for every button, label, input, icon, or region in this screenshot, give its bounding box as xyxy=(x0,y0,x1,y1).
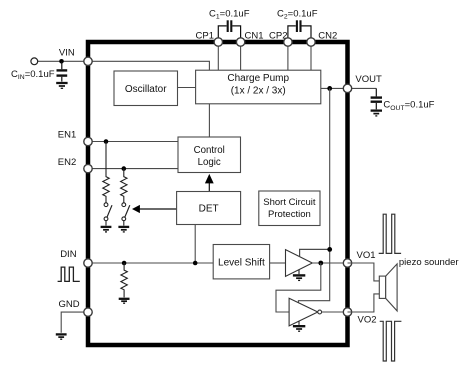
wire oscillator to charge pump xyxy=(178,87,196,89)
wire VO2 to piezo xyxy=(348,294,380,312)
svg-text:VOUT: VOUT xyxy=(355,74,382,85)
capacitor C1 xyxy=(218,20,240,37)
svg-text:piezo sounder: piezo sounder xyxy=(399,257,459,268)
ground COUT xyxy=(371,111,382,116)
svg-text:VO1: VO1 xyxy=(357,250,376,261)
svg-text:Charge Pump: Charge Pump xyxy=(227,73,289,84)
svg-text:Protection: Protection xyxy=(268,209,311,220)
svg-text:Short Circuit: Short Circuit xyxy=(263,197,316,208)
svg-text:(1x / 2x / 3x): (1x / 2x / 3x) xyxy=(231,85,286,96)
node EN2 pulldown junction xyxy=(122,166,127,171)
ground S2 xyxy=(118,227,129,232)
block Short Circuit Protection xyxy=(259,191,320,226)
node EN1 pulldown junction xyxy=(104,139,109,144)
wire CP1 stub xyxy=(217,46,219,70)
wire EN2 xyxy=(88,168,178,170)
node VO1 branch junction xyxy=(318,261,323,266)
pin CP1 xyxy=(214,38,222,46)
block Control Logic xyxy=(178,137,241,173)
node VOUT junction xyxy=(327,86,332,91)
svg-text:CIN=0.1uF: CIN=0.1uF xyxy=(11,69,55,81)
wire VO1 to piezo xyxy=(348,263,380,281)
block Oscillator xyxy=(114,71,178,106)
node DET junction xyxy=(193,261,198,266)
svg-text:CN1: CN1 xyxy=(244,31,263,42)
wire inverter output to VO2 xyxy=(322,311,348,313)
switch S1 xyxy=(104,203,112,226)
wire VIN input xyxy=(38,61,210,70)
svg-text:C2=0.1uF: C2=0.1uF xyxy=(277,9,318,21)
wire buffer output to VO1 xyxy=(312,262,347,264)
svg-text:CP1: CP1 xyxy=(196,31,214,42)
svg-text:EN1: EN1 xyxy=(58,129,76,140)
ground GND pin xyxy=(56,334,67,339)
wire DIN xyxy=(88,262,213,264)
wire CN2 stub xyxy=(310,46,312,70)
resistor DIN pulldown xyxy=(121,263,127,297)
wire supply rail to amplifiers xyxy=(298,88,329,303)
node buffer supply junction xyxy=(327,247,332,252)
ground buffer U1 xyxy=(293,270,305,281)
svg-text:DET: DET xyxy=(199,203,219,214)
svg-text:EN2: EN2 xyxy=(58,157,76,168)
wire EN1 xyxy=(88,141,178,143)
pin DIN xyxy=(84,259,92,267)
capacitor C2 xyxy=(288,20,311,37)
wire level shift to buffer xyxy=(270,262,286,264)
pin EN2 xyxy=(84,164,92,172)
wire VO1 branch to inverter input xyxy=(276,263,321,312)
op-amp buffer U1 xyxy=(286,250,313,277)
terminal VIN input xyxy=(31,58,38,65)
inverter U2 xyxy=(289,298,318,326)
switch S2 xyxy=(122,203,130,226)
svg-text:CN2: CN2 xyxy=(318,31,337,42)
node VIN junction xyxy=(59,59,64,64)
pin VOUT xyxy=(343,84,351,92)
resistor EN2 pulldown xyxy=(121,169,127,203)
piezo sounder speaker cone xyxy=(386,264,397,311)
pin CP2 xyxy=(284,38,292,46)
pin VIN xyxy=(84,57,92,65)
wire GND xyxy=(61,312,88,333)
ground CIN xyxy=(56,83,67,88)
wire buffer supply tap xyxy=(300,249,330,256)
block Level Shift xyxy=(213,245,269,279)
svg-text:C1=0.1uF: C1=0.1uF xyxy=(209,9,250,21)
IC boundary box xyxy=(88,42,348,345)
pin EN1 xyxy=(84,137,92,145)
wire CN1 stub xyxy=(240,46,242,70)
pin CN2 xyxy=(307,38,315,46)
arrow DET to Control Logic xyxy=(205,174,214,192)
pin GND xyxy=(84,308,92,316)
waveform DIN input xyxy=(58,267,80,281)
capacitor CIN xyxy=(57,61,68,81)
waveform VO2 output xyxy=(380,321,402,361)
svg-text:VIN: VIN xyxy=(59,48,75,59)
inverter U2 bubble xyxy=(318,310,322,314)
ground inverter U2 xyxy=(293,321,305,331)
svg-text:DIN: DIN xyxy=(60,249,76,260)
pin VO2 xyxy=(343,308,351,316)
wire charge pump to control logic xyxy=(208,104,210,137)
block DET xyxy=(177,192,241,225)
svg-text:Level Shift: Level Shift xyxy=(218,258,265,269)
pin CN1 xyxy=(236,38,244,46)
ground DIN pulldown xyxy=(119,299,130,303)
wire VOUT xyxy=(321,87,377,89)
svg-text:Oscillator: Oscillator xyxy=(125,84,167,95)
svg-text:Logic: Logic xyxy=(198,157,221,168)
waveform VO1 output xyxy=(379,214,401,253)
svg-text:GND: GND xyxy=(59,299,80,310)
ground S1 xyxy=(101,227,112,232)
wire CP2 stub xyxy=(287,46,289,70)
block Charge Pump xyxy=(196,70,321,104)
resistor EN1 pulldown xyxy=(103,142,109,203)
node DIN pulldown junction xyxy=(122,261,127,266)
svg-text:VO2: VO2 xyxy=(358,314,377,325)
wire DET to DIN line xyxy=(194,225,196,264)
arrow DET to switch S2 xyxy=(132,205,177,213)
pin VO1 xyxy=(343,259,351,267)
piezo sounder speaker body xyxy=(379,276,385,298)
capacitor COUT xyxy=(371,88,382,109)
svg-text:Control: Control xyxy=(194,145,225,156)
